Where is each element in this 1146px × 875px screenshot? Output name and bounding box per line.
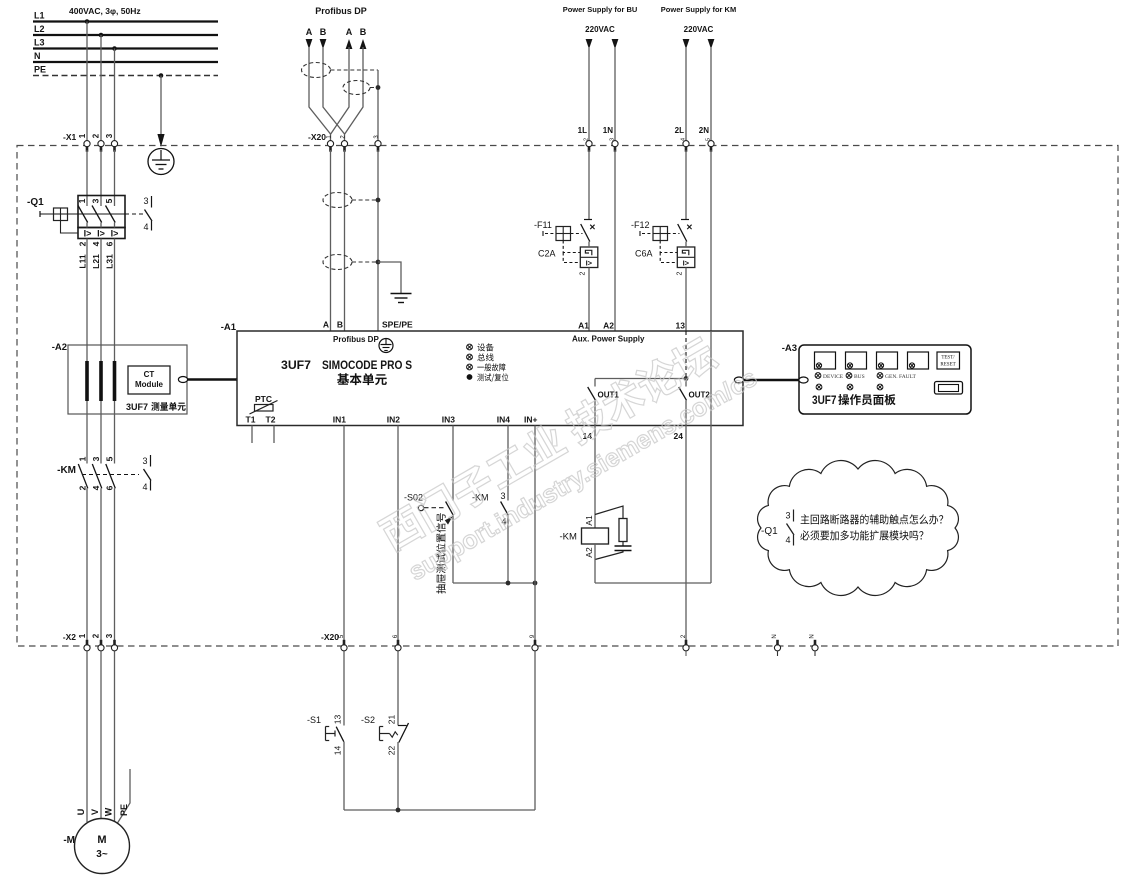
led TEST RESET xyxy=(467,374,473,380)
wire L1 drop to -X1:1 xyxy=(86,22,88,144)
svg-text:GEN. FAULT: GEN. FAULT xyxy=(885,374,917,380)
wire IN1 to -S1 xyxy=(343,652,345,726)
svg-text:3: 3 xyxy=(500,491,505,501)
svg-text:4: 4 xyxy=(143,222,148,232)
basic unit right connector oval xyxy=(734,377,743,383)
svg-text:5: 5 xyxy=(104,198,114,203)
svg-text:PE: PE xyxy=(119,804,129,816)
wire L3 drop to -X1:3 xyxy=(114,49,116,144)
node PE tap xyxy=(159,73,164,78)
feeder wire 2L xyxy=(685,47,687,143)
svg-text:Profibus DP: Profibus DP xyxy=(333,335,379,344)
svg-text:-A3: -A3 xyxy=(782,343,797,354)
svg-text:I>: I> xyxy=(683,258,690,267)
svg-text:21: 21 xyxy=(386,715,396,725)
wire shield to SPE xyxy=(377,150,379,331)
svg-text:L2: L2 xyxy=(34,24,45,34)
contactor -KM pole 2 contact xyxy=(92,464,102,488)
node L3 tap xyxy=(112,46,117,51)
led GEN FAULT xyxy=(467,364,473,370)
wire IN2 to -S2 xyxy=(397,652,399,726)
wire IN+ down xyxy=(534,426,536,644)
wire KM to -X2 1 xyxy=(86,488,88,643)
button -S1 contact NO xyxy=(336,727,344,742)
CT module caption chinese xyxy=(151,402,186,411)
svg-text:L1: L1 xyxy=(34,11,45,21)
feeder arrow 2N xyxy=(708,39,715,49)
svg-text:Power Supply for BU: Power Supply for BU xyxy=(563,5,638,14)
profibus out arrow B xyxy=(360,39,367,49)
svg-text:U: U xyxy=(76,809,86,816)
basic unit -A1 box xyxy=(237,331,743,426)
mcb -F12 fixed contact tick xyxy=(681,219,689,221)
contactor -KM pole 1 contact xyxy=(78,464,88,488)
svg-text:-Q1: -Q1 xyxy=(27,197,44,208)
panel led BUS xyxy=(846,373,852,379)
panel caption chinese xyxy=(838,394,895,405)
svg-text:14: 14 xyxy=(332,746,342,756)
feeder arrow 2L xyxy=(683,39,690,49)
svg-text:I>: I> xyxy=(586,258,593,267)
wire -X1:1 to -Q1 xyxy=(86,150,88,206)
panel led row 2 xyxy=(816,384,822,390)
svg-text:Profibus DP: Profibus DP xyxy=(315,6,367,16)
contactor -KM actuator dashed xyxy=(82,474,139,476)
svg-text:-X1: -X1 xyxy=(63,132,77,142)
cloud text line 2 xyxy=(800,530,923,540)
CT module -A2 box xyxy=(68,345,187,414)
wire U to motor xyxy=(86,652,88,823)
svg-text:1: 1 xyxy=(77,198,87,203)
svg-text:C6A: C6A xyxy=(635,249,653,259)
led BUS xyxy=(467,354,473,360)
node shield junction 2 xyxy=(376,198,381,203)
node OUT feed junction xyxy=(684,376,689,381)
svg-text:-Q1: -Q1 xyxy=(761,526,778,537)
breaker -Q1 body xyxy=(78,196,125,228)
cable shield 3 xyxy=(323,193,352,208)
button -S1 actuator xyxy=(325,727,327,741)
svg-text:2: 2 xyxy=(92,133,101,138)
mcb -F11 fixed contact tick xyxy=(584,219,592,221)
svg-text:W: W xyxy=(103,807,113,816)
svg-text:-F12: -F12 xyxy=(631,220,650,230)
feeder arrow 1N xyxy=(612,39,619,49)
terminal 2L xyxy=(683,141,689,147)
svg-text:L31: L31 xyxy=(104,254,114,269)
wire L11 to CT xyxy=(86,239,88,362)
wire IN2 down xyxy=(397,426,399,644)
snubber bottom link xyxy=(595,551,623,560)
profibus wire A1 xyxy=(309,47,331,143)
cable shield 2 xyxy=(343,81,370,95)
terminal 2N xyxy=(708,141,714,147)
svg-text:2: 2 xyxy=(579,271,586,275)
wire 2N through unit xyxy=(710,150,712,331)
svg-text:-KM: -KM xyxy=(57,465,76,476)
wire 1L to -F11 xyxy=(588,150,590,220)
motor -M circle xyxy=(75,819,130,874)
shield 1 dashed link xyxy=(331,69,379,71)
svg-text:IN4: IN4 xyxy=(497,415,511,425)
svg-text:A: A xyxy=(306,27,313,37)
wire -S1 to bus xyxy=(343,742,345,810)
panel -A3 body xyxy=(799,345,971,414)
svg-text:3UF7: 3UF7 xyxy=(812,395,837,407)
svg-text:1: 1 xyxy=(78,133,87,138)
breaker -Q1 I> strip xyxy=(78,228,125,239)
svg-text:-A1: -A1 xyxy=(221,322,237,333)
enclosure dashed border xyxy=(17,146,1118,647)
svg-text:IN3: IN3 xyxy=(442,415,456,425)
shield 4 dashed link xyxy=(352,261,378,263)
svg-text:220VAC: 220VAC xyxy=(585,25,615,34)
svg-text:A2: A2 xyxy=(584,547,594,558)
svg-text:Aux. Power Supply: Aux. Power Supply xyxy=(572,335,645,344)
svg-text:RESET: RESET xyxy=(940,363,955,368)
contactor -KM pole 3 contact xyxy=(106,464,116,488)
svg-text:-A2: -A2 xyxy=(52,342,67,353)
node L1 tap xyxy=(85,19,90,24)
svg-text:3~: 3~ xyxy=(96,849,108,860)
svg-text:C2A: C2A xyxy=(538,249,556,259)
contact OUT1 xyxy=(594,379,596,387)
svg-text:N: N xyxy=(34,51,41,61)
node shield junction 3 xyxy=(376,260,381,265)
contact OUT2 xyxy=(685,379,687,387)
mcb -F12 wire down xyxy=(685,242,687,248)
svg-text:1: 1 xyxy=(78,633,87,638)
breaker -Q1 actuator dashed link xyxy=(125,213,144,215)
wire L21 to CT xyxy=(100,239,102,362)
svg-text:TEST/: TEST/ xyxy=(941,356,955,361)
svg-text:CT: CT xyxy=(144,370,155,379)
svg-text:PTC: PTC xyxy=(255,394,272,404)
svg-text:Module: Module xyxy=(135,380,164,389)
CT module connector oval xyxy=(178,377,187,383)
SPE earth circle symbol xyxy=(379,339,393,353)
profibus in arrow A xyxy=(306,39,313,49)
mcb -F11 overload box xyxy=(580,247,598,268)
svg-text:M: M xyxy=(97,834,106,846)
svg-text:3: 3 xyxy=(90,198,100,203)
svg-text:T1: T1 xyxy=(246,415,256,425)
breaker -Q1 mech square xyxy=(54,208,68,221)
svg-text:-S1: -S1 xyxy=(307,715,321,725)
wire coil A2 down xyxy=(594,544,596,583)
internal link OUT1-OUT2 xyxy=(595,378,686,380)
svg-text:2N: 2N xyxy=(699,126,709,135)
svg-text:B: B xyxy=(320,27,327,37)
svg-text:22: 22 xyxy=(386,746,396,756)
feeder wire 1N xyxy=(614,47,616,143)
title basic unit chinese xyxy=(337,373,387,385)
node IN4 junction xyxy=(506,581,511,586)
wire -X1:3 to -Q1 xyxy=(114,150,116,206)
snubber capacitor xyxy=(615,545,632,547)
svg-text:T2: T2 xyxy=(266,415,276,425)
wire coil return xyxy=(595,582,711,584)
bus line N xyxy=(33,61,218,63)
mcb -F11 contact xyxy=(581,224,590,242)
breaker -Q1 trip link xyxy=(61,221,79,234)
stub T1 xyxy=(251,426,253,444)
wire -X1:2 to -Q1 xyxy=(100,150,102,206)
wire OUT1/14 down xyxy=(594,426,596,529)
thick link CT to basic unit xyxy=(188,378,238,381)
profibus wire A2 xyxy=(331,47,349,134)
bus line L1 xyxy=(33,20,218,22)
svg-text:3: 3 xyxy=(143,196,148,206)
terminal 1N xyxy=(612,141,618,147)
wire IN3 to -S02 xyxy=(452,426,454,501)
svg-text:-X20: -X20 xyxy=(321,632,339,642)
svg-text:400VAC, 3φ, 50Hz: 400VAC, 3φ, 50Hz xyxy=(69,6,141,16)
svg-text:L3: L3 xyxy=(34,38,45,48)
wire L31 to CT xyxy=(114,239,116,362)
feeder wire 2N xyxy=(710,47,712,143)
profibus wire B1 xyxy=(323,47,345,143)
terminal 1L xyxy=(586,141,592,147)
mcb -F12 mech square xyxy=(653,227,668,241)
CT primary bar 3 xyxy=(113,361,117,401)
svg-text:4: 4 xyxy=(91,485,101,490)
svg-text:2L: 2L xyxy=(675,126,684,135)
wire IN+ to bus xyxy=(534,652,536,811)
svg-text:DEVICE: DEVICE xyxy=(823,374,844,380)
wire W to motor xyxy=(114,652,116,822)
svg-text:13: 13 xyxy=(332,715,342,725)
svg-text:2: 2 xyxy=(676,271,683,275)
svg-text:3: 3 xyxy=(105,633,114,638)
svg-text:A1: A1 xyxy=(578,321,589,331)
svg-text:SIMOCODE PRO S: SIMOCODE PRO S xyxy=(322,358,412,372)
CT primary bar 2 xyxy=(99,361,103,401)
wire A to basic unit xyxy=(330,150,332,331)
stub T2 xyxy=(273,426,275,444)
panel left connector oval xyxy=(799,377,808,383)
svg-text:N: N xyxy=(810,634,816,638)
panel connector socket xyxy=(935,382,963,395)
panel button 3 xyxy=(877,352,898,369)
svg-text:-KM: -KM xyxy=(560,532,578,543)
wire V to motor xyxy=(100,652,102,819)
led DEVICE xyxy=(467,344,473,350)
svg-text:2: 2 xyxy=(92,633,101,638)
svg-text:-F11: -F11 xyxy=(534,220,552,230)
breaker -Q1 T-actuator xyxy=(39,211,41,217)
svg-text:3: 3 xyxy=(142,456,147,466)
svg-text:3: 3 xyxy=(785,511,790,521)
bus line PE (dashed) xyxy=(33,75,218,77)
ground symbol xyxy=(391,293,412,295)
svg-text:220VAC: 220VAC xyxy=(684,25,714,34)
feeder wire 1L xyxy=(588,47,590,143)
svg-text:13: 13 xyxy=(676,321,686,331)
breaker -Q1 pole 3 contact xyxy=(106,206,116,223)
snubber link xyxy=(622,542,624,547)
wire L2 drop to -X1:2 xyxy=(100,35,102,143)
wire OUT2/24 down xyxy=(685,426,687,644)
wire -KM aux to junction xyxy=(507,515,509,583)
svg-text:-S2: -S2 xyxy=(361,715,375,725)
panel button 4 xyxy=(908,352,929,369)
svg-text:A: A xyxy=(323,320,329,330)
button -S2 actuator xyxy=(379,727,381,741)
svg-text:N: N xyxy=(772,634,778,638)
svg-text:-X2: -X2 xyxy=(63,632,77,642)
svg-text:2: 2 xyxy=(77,485,87,490)
wire PE drop to earth xyxy=(160,76,162,135)
watermark url line xyxy=(404,364,762,587)
breaker -Q1 pole 2 contact xyxy=(92,206,102,223)
cable shield 4 xyxy=(323,255,352,270)
watermark chinese line xyxy=(376,333,720,554)
svg-text:1: 1 xyxy=(77,456,87,461)
bus line L2 xyxy=(33,34,218,36)
annotation cloud bubble xyxy=(758,461,959,596)
mcb -F12 overload box xyxy=(677,247,695,268)
wire KM to -X2 3 xyxy=(114,488,116,643)
earth arrow xyxy=(157,134,164,147)
panel led DEVICE xyxy=(815,373,821,379)
wire -S2 to bus xyxy=(397,742,399,810)
svg-text:3: 3 xyxy=(91,456,101,461)
svg-text:Power Supply for KM: Power Supply for KM xyxy=(661,5,736,14)
wire B to basic unit xyxy=(344,150,346,331)
svg-text:L11: L11 xyxy=(77,254,87,268)
svg-text:V: V xyxy=(90,809,100,815)
svg-text:IN+: IN+ xyxy=(524,415,538,425)
svg-text:4: 4 xyxy=(91,241,101,246)
feeder arrow 1L xyxy=(586,39,593,49)
thick link unit to panel xyxy=(744,379,800,382)
profibus in arrow B xyxy=(320,39,327,49)
wire CT down 3 xyxy=(114,401,116,464)
button -S2 contact NC xyxy=(398,725,407,727)
svg-text:1L: 1L xyxy=(578,126,587,135)
contactor coil -KM xyxy=(582,528,609,544)
wire 2N below unit xyxy=(710,426,712,584)
svg-text:IN2: IN2 xyxy=(387,415,401,425)
switch -S02 actuator xyxy=(418,505,423,510)
cable shield 1 xyxy=(302,63,331,78)
svg-text:3UF7: 3UF7 xyxy=(126,402,148,412)
svg-text:-X20: -X20 xyxy=(308,132,326,142)
cloud text line 1 xyxy=(801,514,944,524)
svg-text:BUS: BUS xyxy=(854,374,865,380)
svg-text:-M: -M xyxy=(63,835,75,846)
svg-text:I>: I> xyxy=(111,229,119,239)
wire -S02 to junction xyxy=(452,515,454,583)
svg-text:I>: I> xyxy=(84,229,92,239)
wire shield to ground xyxy=(378,262,401,293)
svg-text:3UF7: 3UF7 xyxy=(281,358,311,372)
leader arrow for drawer label xyxy=(445,516,453,524)
panel button 2 xyxy=(846,352,867,369)
node L2 tap xyxy=(99,33,104,38)
svg-text:1N: 1N xyxy=(603,126,613,135)
shield bus wire xyxy=(377,70,379,143)
svg-text:6: 6 xyxy=(104,241,114,246)
protective earth symbol xyxy=(148,149,174,175)
panel led GEN FAULT xyxy=(877,373,883,379)
wire 1N to A2 xyxy=(614,150,616,331)
node IN+ junction xyxy=(533,581,538,586)
panel button 1 xyxy=(815,352,836,369)
snubber top link xyxy=(595,506,623,519)
node shield junction xyxy=(376,85,381,90)
wire IN1 down xyxy=(343,426,345,644)
svg-text:3: 3 xyxy=(105,133,114,138)
wire CT down 1 xyxy=(86,401,88,464)
svg-text:B: B xyxy=(337,320,343,330)
svg-text:2: 2 xyxy=(77,241,87,246)
mcb -F11 actuator dashes xyxy=(545,233,556,235)
svg-text:6: 6 xyxy=(104,485,114,490)
bus line L3 xyxy=(33,47,218,49)
wire 2N inside unit xyxy=(710,331,712,426)
svg-text:I>: I> xyxy=(97,229,105,239)
svg-text:SPE/PE: SPE/PE xyxy=(382,320,413,330)
svg-text:A: A xyxy=(346,27,353,37)
shield 2 dashed link xyxy=(370,87,378,89)
label drawer test position signal (rotated) xyxy=(436,513,445,594)
svg-text:B: B xyxy=(360,27,367,37)
profibus wire B2 xyxy=(345,47,363,134)
svg-text:IN1: IN1 xyxy=(333,415,347,425)
panel TEST/RESET button xyxy=(937,352,960,369)
svg-text:4: 4 xyxy=(785,535,790,545)
wire CT down 2 xyxy=(100,401,102,464)
switch -S02 contact xyxy=(446,502,454,516)
wire common bus xyxy=(344,809,535,811)
node bus junction xyxy=(396,808,401,813)
PTC thermistor symbol xyxy=(255,405,274,412)
wire IN4 to -KM aux xyxy=(507,426,509,501)
wire PE to motor xyxy=(118,769,131,823)
wire KM to -X2 2 xyxy=(100,488,102,643)
svg-text:5: 5 xyxy=(104,456,114,461)
svg-text:PE: PE xyxy=(34,65,46,75)
svg-text:L21: L21 xyxy=(91,254,101,269)
mcb -F12 contact xyxy=(678,224,687,242)
mcb -F11 mech square xyxy=(556,227,571,241)
breaker -Q1 pole 1 contact xyxy=(78,206,88,223)
mcb -F12 actuator dashes xyxy=(642,233,653,235)
CT primary bar 1 xyxy=(85,361,89,401)
profibus out arrow A xyxy=(346,39,353,49)
snubber resistor xyxy=(619,519,627,542)
svg-text:A1: A1 xyxy=(584,515,594,526)
svg-text:A2: A2 xyxy=(603,321,614,331)
wire junction link xyxy=(453,582,535,584)
basic unit left connector oval xyxy=(236,377,245,383)
internal dashed feed 13 xyxy=(685,331,687,377)
shield 3 dashed link xyxy=(352,199,378,201)
wire 2L to -F12 xyxy=(685,150,687,220)
CT Module inner box xyxy=(128,366,170,394)
mcb -F11 wire down xyxy=(588,242,590,248)
svg-text:4: 4 xyxy=(142,482,147,492)
